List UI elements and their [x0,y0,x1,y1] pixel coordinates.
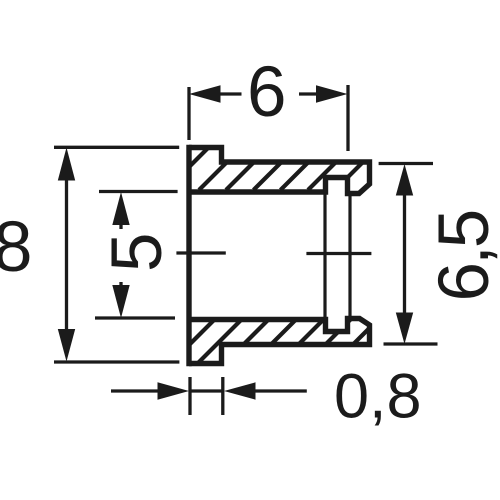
svg-text:6: 6 [247,53,287,132]
svg-text:5: 5 [98,233,177,273]
svg-text:6,5: 6,5 [425,211,500,301]
svg-text:8: 8 [0,208,33,287]
svg-text:0,8: 0,8 [334,362,422,432]
